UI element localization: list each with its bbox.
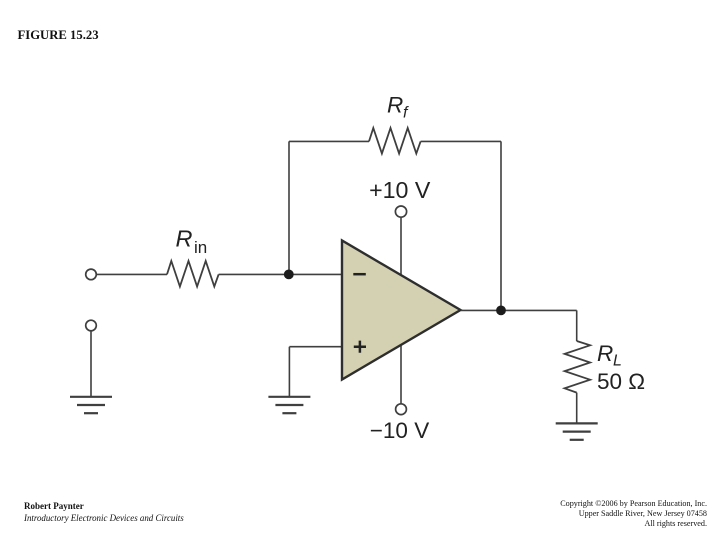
wire: Rin to inverting input	[219, 273, 342, 275]
input terminal circle	[86, 269, 97, 280]
wire: non-inverting input to ground	[289, 347, 342, 396]
svg-text:f: f	[403, 105, 409, 122]
resistor RL	[565, 341, 591, 393]
svg-text:R: R	[597, 341, 613, 366]
ground (load)	[556, 423, 598, 439]
svg-text:+10 V: +10 V	[369, 177, 431, 203]
svg-text:R: R	[176, 226, 193, 252]
svg-text:L: L	[613, 353, 622, 370]
author credit	[24, 500, 184, 524]
svg-text:50 Ω: 50 Ω	[597, 369, 645, 394]
terminal circle -10V	[396, 404, 407, 415]
svg-text:−10 V: −10 V	[370, 418, 429, 443]
figure caption	[18, 28, 99, 43]
resistor Rin	[167, 261, 219, 287]
wire: RL to ground	[576, 393, 578, 423]
op-amp U1	[342, 241, 461, 380]
grounded terminal circle (lower input)	[86, 320, 97, 331]
node A junction dot	[284, 270, 294, 280]
terminal circle +10V	[395, 206, 406, 217]
wire: feedback loop left vertical (node A to top)	[288, 141, 290, 274]
svg-text:in: in	[194, 238, 207, 257]
resistor Rf	[369, 128, 421, 154]
wire: +V supply vertical	[400, 218, 402, 291]
op-amp minus sign	[353, 273, 366, 276]
wire: input to Rin	[97, 273, 168, 275]
wire: feedback top horizontal left of Rf	[289, 140, 369, 142]
wire: feedback right vertical down to output node	[500, 141, 502, 310]
ground (center)	[268, 397, 310, 413]
wire: output down to RL	[576, 310, 578, 341]
wire: output	[461, 309, 577, 311]
wire: lower terminal to ground	[90, 331, 92, 396]
output node dot	[496, 306, 506, 316]
ground (left)	[70, 397, 112, 413]
op-amp plus sign	[354, 341, 366, 353]
wire: -V supply vertical	[400, 330, 402, 404]
copyright	[560, 499, 707, 529]
svg-text:R: R	[387, 93, 403, 118]
wire: feedback top horizontal right of Rf	[421, 140, 501, 142]
